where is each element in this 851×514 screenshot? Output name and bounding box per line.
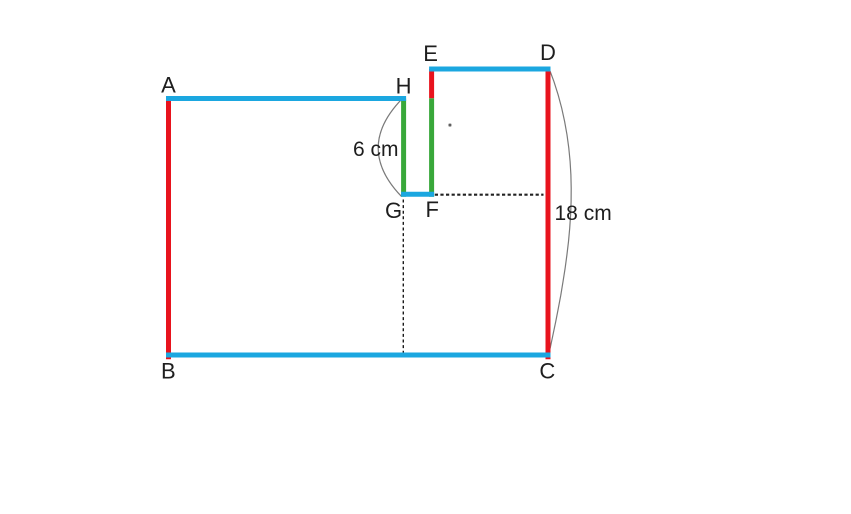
svg-text:E: E (423, 41, 438, 66)
svg-text:6 cm: 6 cm (353, 138, 399, 161)
svg-text:H: H (396, 74, 412, 99)
svg-text:G: G (385, 198, 402, 223)
svg-text:A: A (161, 73, 176, 98)
svg-text:18 cm: 18 cm (555, 202, 612, 225)
svg-text:F: F (425, 197, 438, 222)
svg-text:B: B (161, 359, 176, 384)
svg-text:C: C (539, 359, 555, 384)
svg-text:D: D (540, 40, 556, 65)
